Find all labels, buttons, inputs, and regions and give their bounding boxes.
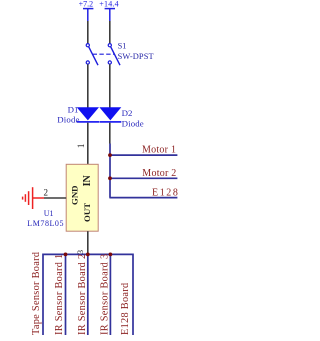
ground symbol (red, pointing left) (23, 187, 44, 209)
svg-text:Tape Sensor Board: Tape Sensor Board (31, 251, 42, 335)
junction dot bus 3 (86, 253, 90, 257)
net wire output bus (43, 254, 133, 335)
diode D2 (99, 107, 121, 122)
svg-text:Motor 2: Motor 2 (142, 168, 176, 179)
svg-text:D2: D2 (122, 108, 133, 118)
junction dot bus 2 (64, 253, 68, 257)
svg-text:SW-DPST: SW-DPST (118, 52, 154, 61)
svg-text:3: 3 (75, 250, 85, 254)
wire left column top (87, 21, 89, 43)
net wire E128 (109, 197, 177, 199)
regulator U1 body (66, 164, 98, 231)
svg-text:IR Sensor Board 1: IR Sensor Board 1 (54, 254, 65, 335)
net wire drop 4 (109, 254, 111, 335)
wire left column to regulator (87, 123, 89, 165)
switch S1 pole A (86, 44, 98, 66)
svg-text:GND: GND (70, 185, 80, 205)
svg-text:E128: E128 (152, 187, 180, 198)
svg-text:Diode: Diode (57, 115, 79, 125)
net wire drop 2 (65, 254, 67, 335)
switch S1 pole B (108, 44, 120, 66)
switch linkage dashed line (93, 53, 114, 55)
net wire drop 3 (87, 254, 89, 335)
diode D1 (77, 107, 99, 122)
junction dot Motor 1 (108, 153, 112, 157)
junction dot Motor 2 (108, 176, 112, 180)
svg-text:IR Sensor Board 3: IR Sensor Board 3 (99, 254, 110, 335)
svg-text:E128 Board: E128 Board (120, 282, 131, 335)
junction dot bus 4 (109, 253, 113, 257)
wire right column mid (109, 64, 111, 108)
svg-text:2: 2 (44, 188, 49, 198)
svg-text:1: 1 (77, 143, 87, 148)
power bar VCC2 (105, 9, 115, 21)
svg-text:IN: IN (82, 175, 93, 187)
svg-text:Diode: Diode (122, 118, 144, 128)
svg-text:LM78L05: LM78L05 (27, 219, 64, 228)
svg-text:OUT: OUT (82, 203, 92, 222)
power bar VCC1 (83, 9, 93, 21)
wire right column top (109, 21, 111, 43)
pin 3 wire (87, 231, 89, 253)
svg-text:+14.4: +14.4 (99, 0, 119, 9)
net wire right column (blue) (109, 144, 111, 198)
net wire Motor 2 (109, 177, 177, 179)
svg-text:D1: D1 (68, 104, 79, 114)
svg-text:U1: U1 (44, 209, 54, 218)
wire right column below diode (109, 123, 111, 144)
wire left column mid (87, 64, 89, 108)
svg-text:+7.2: +7.2 (79, 0, 94, 9)
svg-text:Motor 1: Motor 1 (142, 144, 176, 155)
svg-text:S1: S1 (118, 41, 127, 50)
pin 2 wire (GND pin) (44, 197, 66, 199)
svg-text:IR Sensor Board 2: IR Sensor Board 2 (77, 254, 88, 335)
net wire Motor 1 (109, 154, 177, 156)
